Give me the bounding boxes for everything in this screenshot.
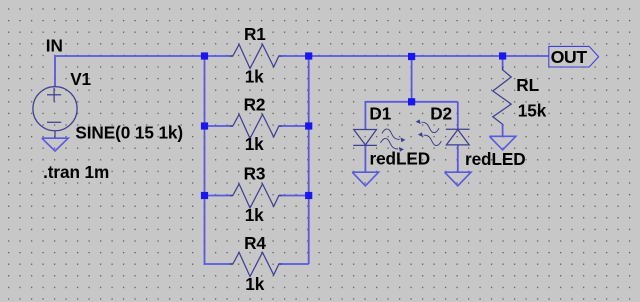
resistor R2 bbox=[230, 114, 282, 138]
wire R4 bottom left lead bbox=[205, 263, 233, 265]
voltage source V1 bbox=[33, 87, 77, 139]
ground (D2) bbox=[445, 172, 471, 186]
svg-text:IN: IN bbox=[46, 36, 63, 56]
wire RL top lead bbox=[502, 56, 504, 70]
LED D2 bbox=[446, 129, 470, 145]
port flag OUT bbox=[549, 46, 599, 67]
node junction R1 right bbox=[305, 52, 312, 59]
resistor R3 bbox=[230, 184, 282, 208]
wire LED branch vertical from top wire bbox=[411, 56, 413, 102]
LED D1 bbox=[353, 130, 377, 146]
node junction R3 right bbox=[305, 192, 312, 199]
svg-text:R1: R1 bbox=[244, 24, 266, 44]
svg-text:1k: 1k bbox=[245, 205, 264, 225]
resistor R4 bbox=[230, 252, 282, 276]
LED D1 emission arrows bbox=[381, 129, 400, 149]
wire IN corner to V1 top bbox=[54, 56, 56, 87]
node junction R2 left bbox=[201, 122, 208, 129]
svg-text:RL: RL bbox=[516, 75, 539, 95]
ground (D1) bbox=[352, 172, 378, 186]
wire D1 cathode to ground bbox=[364, 145, 366, 172]
wire R2 right lead bbox=[279, 125, 309, 127]
svg-text:1k: 1k bbox=[245, 274, 264, 294]
ground (V1) bbox=[42, 138, 68, 151]
svg-text:15k: 15k bbox=[518, 100, 547, 120]
node junction R3 left bbox=[201, 192, 208, 199]
svg-text:V1: V1 bbox=[70, 69, 91, 89]
svg-text:R3: R3 bbox=[244, 164, 266, 184]
LED D2 emission arrows bbox=[421, 122, 441, 145]
wire RL bottom lead bbox=[502, 124, 504, 136]
wire D1 anode bbox=[364, 102, 366, 130]
svg-text:R2: R2 bbox=[244, 95, 266, 115]
svg-text:SINE(0 15 1k): SINE(0 15 1k) bbox=[75, 123, 183, 143]
wire LED junction horizontal bbox=[365, 101, 457, 103]
wire R3 right lead bbox=[279, 195, 309, 197]
svg-text:OUT: OUT bbox=[551, 47, 588, 67]
node junction R2 right bbox=[305, 122, 312, 129]
wire D2 cathode bbox=[457, 102, 459, 130]
wire right rail bbox=[308, 56, 310, 264]
ground (RL) bbox=[489, 136, 515, 150]
svg-text:.tran 1m: .tran 1m bbox=[43, 162, 109, 182]
node junction R1 left bbox=[201, 52, 208, 59]
wire top horizontal left segment (IN to R1 body) bbox=[55, 55, 233, 57]
svg-text:redLED: redLED bbox=[465, 149, 526, 169]
wire D2 anode to ground bbox=[457, 145, 459, 172]
svg-text:R4: R4 bbox=[244, 233, 266, 253]
resistor R1 bbox=[230, 44, 282, 68]
svg-text:1k: 1k bbox=[245, 134, 264, 154]
wire R3 left lead bbox=[205, 195, 233, 197]
svg-text:D2: D2 bbox=[430, 103, 452, 123]
node junction RL top bbox=[499, 52, 506, 59]
node junction LED branch top bbox=[408, 53, 415, 60]
wire R4 bottom right lead bbox=[279, 263, 309, 265]
wire top horizontal right segment (R1 body to OUT flag) bbox=[279, 55, 549, 57]
svg-text:redLED: redLED bbox=[370, 148, 431, 168]
resistor RL bbox=[493, 67, 511, 128]
node junction LED center bbox=[408, 98, 415, 105]
svg-text:D1: D1 bbox=[369, 103, 391, 123]
wire R2 left lead bbox=[205, 125, 233, 127]
wire left rail bbox=[204, 56, 206, 264]
svg-text:1k: 1k bbox=[245, 67, 264, 87]
